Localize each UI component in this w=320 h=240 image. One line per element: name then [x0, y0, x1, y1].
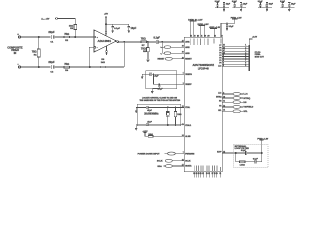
ground [135, 107, 137, 113]
svg-text:HS: HS [219, 101, 222, 103]
svg-text:10: 10 [223, 96, 225, 98]
wire feedback bottom [90, 66, 100, 68]
svg-text:28.63636MHz: 28.63636MHz [144, 114, 159, 116]
decoupling rail [232, 7, 246, 9]
svg-text:XTAL1: XTAL1 [185, 124, 191, 127]
decoupling rail [281, 7, 295, 9]
capacitor C18 0.1uF [280, 1, 286, 8]
svg-text:42: 42 [197, 35, 199, 38]
capacitor C12 0.1uF [215, 1, 221, 8]
resistor R10 alsb [148, 134, 184, 137]
svg-text:2: 2 [245, 47, 246, 49]
capacitor C20 0.1uF loop [236, 150, 262, 155]
capacitor C13 10uF [223, 3, 231, 8]
power rail AVDD 1.8V [209, 26, 220, 35]
node loop [261, 152, 262, 153]
svg-text:47pF: 47pF [147, 109, 152, 112]
vref box [146, 71, 177, 89]
terminal J1 + [17, 33, 20, 38]
svg-text:41: 41 [223, 109, 225, 112]
svg-text:SFL: SFL [243, 111, 248, 113]
external loop filter box [234, 144, 268, 167]
power rail DVDDIO 3.3V [188, 19, 203, 35]
resistor R2 75ohm series top [64, 32, 70, 42]
label pixel bus [255, 52, 265, 59]
svg-text:VREFN: VREFN [185, 74, 192, 76]
svg-text:∿: ∿ [160, 46, 162, 49]
svg-text:VS/FIELD: VS/FIELD [243, 107, 253, 109]
jumper JP2 ain2 [160, 46, 184, 49]
ground [266, 8, 268, 12]
svg-text:2: 2 [223, 55, 224, 57]
svg-text:4: 4 [223, 59, 224, 62]
crystal box [137, 104, 180, 126]
svg-text:R3: R3 [70, 28, 74, 30]
resistor R4 75ohm series bottom [64, 62, 70, 72]
resistor R3 bias [69, 25, 77, 38]
svg-text:10µF: 10µF [291, 3, 296, 5]
capacitor C8 0.1uF vref [150, 73, 159, 78]
svg-text:VREFP: VREFP [185, 84, 192, 86]
wire ELPF [217, 151, 236, 153]
op-amp U1 ADA4861 [94, 30, 117, 52]
jumper JP4 reset [157, 57, 183, 60]
node top term [38, 36, 39, 37]
bottom pin names vertical [194, 166, 221, 171]
power rail PVDD 1.8V [221, 17, 242, 35]
svg-text:6: 6 [223, 65, 224, 67]
capacitor C11 0.1uF pvdd [226, 23, 235, 29]
svg-text:C1: C1 [50, 42, 54, 44]
svg-text:8: 8 [223, 92, 224, 94]
svg-text:POWER DOWN INPUT: POWER DOWN INPUT [138, 153, 161, 155]
svg-text:AIN1: AIN1 [185, 41, 189, 44]
top pins stubs [190, 35, 221, 37]
svg-text:45: 45 [223, 44, 225, 47]
svg-text:SCLK: SCLK [185, 161, 191, 163]
svg-text:R8: R8 [143, 51, 147, 53]
svg-text:38: 38 [182, 46, 184, 48]
resistor R15 VS out [219, 105, 254, 108]
svg-text:9: 9 [245, 65, 246, 67]
capacitor C16 0.1uF [258, 1, 264, 8]
svg-text:33: 33 [221, 36, 223, 38]
svg-text:LLC: LLC [243, 94, 248, 96]
ground [240, 8, 242, 12]
svg-text:25: 25 [208, 173, 210, 175]
capacitor C9 4.7uF vref [152, 84, 163, 91]
node output [124, 41, 125, 42]
wire inverting input [89, 47, 94, 67]
ground [223, 8, 225, 12]
svg-text:AIN2: AIN2 [185, 46, 189, 49]
pixel pin numbers [223, 44, 246, 67]
svg-text:46: 46 [223, 46, 225, 49]
svg-text:1: 1 [245, 45, 246, 47]
node supply rail [105, 24, 106, 25]
pixel bus wires P7-P0 [222, 46, 249, 66]
svg-text:39: 39 [182, 52, 184, 54]
jumper JP6 sclk [157, 159, 184, 162]
svg-text:75Ω: 75Ω [64, 62, 69, 66]
svg-text:29: 29 [216, 173, 218, 175]
svg-text:RESET: RESET [185, 59, 192, 61]
ground [146, 60, 149, 62]
resistor R14 HS out [219, 101, 247, 104]
svg-text:THE SAME SIDE OF THE PCB AS TH: THE SAME SIDE OF THE PCB AS THE ADV7180 [139, 99, 180, 102]
power ALSB 3.3V [143, 131, 149, 136]
svg-text:SCLK: SCLK [157, 161, 163, 163]
resistor R11 1Mohm [174, 107, 182, 125]
svg-text:75Ω: 75Ω [32, 50, 37, 54]
capacitor C14 0.1uF [232, 1, 238, 8]
svg-text:31: 31 [219, 173, 221, 175]
svg-text:0.1µF: 0.1µF [280, 1, 286, 3]
node bias junction [75, 36, 76, 37]
wire bias [57, 19, 75, 25]
jumper JP5 pwrdwn [138, 152, 184, 155]
svg-text:INTRQ: INTRQ [243, 98, 250, 100]
node shunt [147, 41, 148, 42]
op-amp V+ pin [104, 14, 108, 36]
capacitor C2 22uF [48, 60, 55, 74]
svg-text:AIN3: AIN3 [185, 52, 189, 55]
svg-text:10kΩ: 10kΩ [148, 134, 153, 136]
capacitor C19 10uF [288, 3, 296, 8]
svg-text:6: 6 [245, 58, 246, 60]
ground [141, 74, 143, 79]
svg-text:RESET: RESET [157, 59, 165, 61]
svg-text:PWRDWN: PWRDWN [185, 153, 195, 155]
op-amp output pin [117, 41, 141, 43]
svg-text:3: 3 [245, 50, 246, 52]
svg-text:R4: R4 [65, 69, 69, 72]
power rail DVDD 1.8V [198, 24, 210, 35]
svg-text:4: 4 [245, 51, 246, 54]
wire feedback vertical [123, 42, 125, 67]
wire [70, 36, 95, 38]
connector header [249, 37, 258, 71]
wire ain bus [161, 42, 163, 53]
terminal J1 - [17, 63, 20, 68]
capacitor C21 loop [245, 153, 262, 164]
svg-text:13: 13 [223, 105, 225, 107]
svg-text:40: 40 [182, 56, 184, 59]
svg-text:8: 8 [245, 63, 246, 65]
capacitor C7 0.1uF coupling [154, 37, 163, 44]
svg-text:10µF: 10µF [243, 3, 248, 5]
svg-text:47pF: 47pF [147, 120, 152, 123]
svg-text:11: 11 [223, 101, 225, 103]
resistor R12 LLC out [218, 92, 248, 95]
ground [135, 125, 137, 131]
svg-text:10µF: 10µF [269, 3, 274, 5]
svg-text:0.1µF: 0.1µF [215, 1, 221, 3]
op-amp V- pin [106, 46, 108, 56]
node bottom term [38, 66, 39, 67]
svg-text:10µF: 10µF [226, 3, 231, 5]
capacitor C17 10uF [266, 3, 274, 8]
svg-text:0.1µF: 0.1µF [258, 1, 264, 3]
svg-text:A₂₅ +5V: A₂₅ +5V [41, 18, 50, 21]
crystal Y1 [144, 107, 169, 125]
capacitor C5 0.1uF [111, 24, 120, 30]
svg-text:0.1µF: 0.1µF [154, 37, 161, 40]
svg-text:SDATA: SDATA [185, 165, 192, 168]
svg-text:+5V: +5V [104, 14, 108, 16]
ground [288, 8, 290, 12]
svg-text:C2: C2 [50, 72, 54, 74]
svg-text:HS: HS [243, 102, 247, 104]
power PVDD loop [257, 138, 269, 153]
svg-text:INTRQ: INTRQ [216, 97, 222, 99]
wire XTAL [136, 106, 146, 108]
svg-text:4.7µF: 4.7µF [157, 87, 163, 90]
svg-text:VS: VS [219, 106, 222, 108]
IC U2 ADV7180 body [184, 37, 222, 171]
svg-text:XTAL: XTAL [185, 106, 191, 109]
wire XTAL1 [136, 124, 146, 126]
ground [226, 28, 228, 30]
svg-text:75Ω: 75Ω [64, 32, 69, 36]
svg-text:1MΩ: 1MΩ [177, 114, 182, 116]
svg-text:BUS OUT: BUS OUT [255, 56, 265, 58]
terminal AIN +5V [41, 18, 57, 21]
svg-text:0.1µF: 0.1µF [241, 150, 247, 152]
svg-text:+3.3V: +3.3V [252, 37, 258, 39]
top pin names vertical [190, 39, 222, 46]
wire AIN1 [162, 41, 184, 43]
decoupling rail [258, 7, 272, 9]
svg-text:10µF: 10µF [131, 27, 137, 30]
svg-text:7: 7 [245, 60, 246, 62]
wire VREFN [142, 73, 150, 75]
svg-text:0.1µF: 0.1µF [114, 28, 120, 30]
wire VREFP [153, 74, 184, 85]
wire [54, 66, 64, 68]
svg-text:SDA: SDA [157, 165, 162, 168]
svg-text:+: + [17, 33, 19, 36]
resistor R7 75ohm series output [141, 37, 147, 47]
ground [151, 91, 153, 93]
svg-text:R1: R1 [34, 55, 38, 57]
capacitor C6 10uF [128, 24, 137, 30]
decoupling rail [215, 7, 229, 9]
note text crystal [139, 97, 180, 102]
svg-text:ELPF: ELPF [217, 152, 221, 154]
node ain [162, 41, 163, 42]
resistor R16 SFL out [218, 109, 248, 113]
node elpf [235, 152, 236, 153]
svg-text:22: 22 [202, 173, 204, 175]
svg-text:0.1µF: 0.1µF [253, 159, 259, 161]
ground [112, 31, 114, 33]
top pin numbers [190, 35, 223, 38]
svg-text:15: 15 [223, 151, 225, 153]
svg-text:22µF: 22µF [48, 60, 55, 64]
resistor R8 75ohm shunt [141, 42, 149, 59]
svg-text:−: − [17, 63, 19, 66]
svg-text:LLC: LLC [218, 93, 222, 95]
svg-text:37: 37 [182, 40, 184, 42]
svg-text:ADV7180WBCPZ: ADV7180WBCPZ [193, 63, 215, 67]
resistor R1 75ohm termination [32, 37, 40, 67]
svg-text:R2: R2 [65, 40, 69, 42]
bottom pin numbers [193, 172, 221, 175]
wire [70, 66, 90, 68]
capacitor C1 22uF [48, 30, 55, 44]
svg-text:1kΩ: 1kΩ [101, 62, 105, 64]
pixel pin names inside [218, 45, 222, 68]
svg-text:0.1µF: 0.1µF [153, 76, 159, 78]
pin numbers left side [182, 40, 184, 166]
svg-text:ADA4861: ADA4861 [98, 39, 112, 43]
svg-text:0.1µF: 0.1µF [229, 26, 235, 28]
bottom pins stubs [194, 172, 220, 178]
svg-text:0.1µF: 0.1µF [232, 1, 238, 3]
svg-text:ALSB: ALSB [185, 135, 191, 138]
svg-text:P4: P4 [219, 52, 221, 55]
svg-text:75Ω: 75Ω [141, 37, 146, 41]
svg-text:R6: R6 [101, 59, 105, 61]
svg-text:1.3kΩ: 1.3kΩ [240, 165, 246, 167]
wire bottom input [21, 66, 51, 68]
wire top input [21, 36, 51, 38]
svg-text:48: 48 [223, 51, 225, 54]
svg-text:75Ω: 75Ω [141, 47, 146, 51]
svg-text:22µF: 22µF [48, 30, 55, 34]
svg-text:∿: ∿ [160, 52, 162, 55]
svg-text:5: 5 [223, 63, 224, 65]
svg-text:39: 39 [208, 36, 210, 38]
jumper JP3 ain3 [160, 52, 184, 55]
label COMPOSITE VIDEO IN [7, 46, 23, 55]
svg-text:3: 3 [223, 58, 224, 60]
wire supply rail [106, 23, 129, 25]
resistor R13 INTRQ out [216, 96, 250, 99]
svg-text:LFCSP-48: LFCSP-48 [198, 67, 210, 70]
resistor R17 loop [236, 153, 246, 167]
node feedback [89, 66, 90, 67]
resistor R6 feedback labels [100, 59, 105, 68]
jumper JP7 sdata [157, 165, 183, 168]
pin names left side [185, 41, 195, 168]
wire [147, 41, 157, 43]
svg-text:SFL: SFL [218, 110, 221, 112]
svg-text:IN: IN [14, 51, 17, 55]
svg-text:5: 5 [245, 55, 246, 57]
wire [54, 36, 64, 38]
svg-text:LLC: LLC [218, 65, 222, 67]
capacitor C15 10uF [240, 3, 248, 8]
svg-text:−: − [97, 48, 99, 50]
ground [128, 31, 130, 33]
